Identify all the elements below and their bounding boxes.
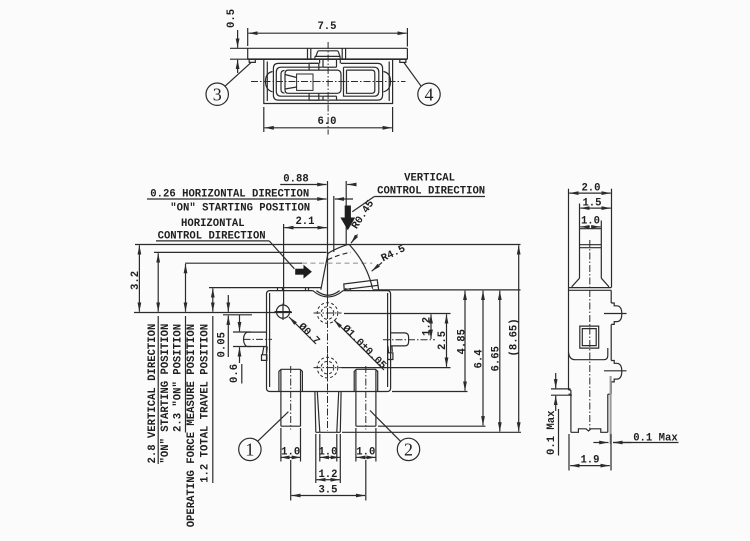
hole 0.7	[275, 304, 292, 321]
svg-text:0.05: 0.05	[217, 332, 229, 357]
svg-text:(8.65): (8.65)	[508, 318, 520, 356]
label underline lines	[158, 316, 242, 483]
top view dim 7.5	[248, 21, 408, 47]
label horizontal control direction	[156, 218, 294, 269]
label R0.45	[350, 198, 377, 243]
leader hole 0.7	[289, 317, 322, 348]
svg-text:2.1: 2.1	[295, 216, 314, 228]
top view slider	[285, 70, 341, 93]
dim line 2.3 vertical	[185, 264, 187, 312]
svg-text:"ON" STARTING POSITION: "ON" STARTING POSITION	[170, 203, 310, 215]
top view left cap	[266, 72, 273, 92]
leader hole 1.0	[334, 320, 388, 372]
extension line datum right	[344, 313, 451, 315]
label 2.3 on position	[173, 324, 185, 432]
dim 0.05	[217, 295, 253, 358]
svg-text:2.3 "ON" POSITION: 2.3 "ON" POSITION	[173, 324, 185, 432]
hole 1.0 lower	[314, 354, 342, 382]
right terminal tab	[383, 333, 435, 346]
label vertical control direction	[352, 173, 485, 212]
dim 1.0 left leg	[280, 428, 301, 462]
main dim 2.1	[284, 216, 327, 306]
side dim 0.1 max right	[593, 433, 678, 445]
balloon 1	[239, 412, 289, 461]
top view left block	[276, 67, 322, 96]
dim line operating force vertical	[212, 288, 214, 311]
side dim 0.1 max left	[546, 373, 572, 456]
svg-text:1: 1	[245, 440, 254, 460]
svg-text:3.5: 3.5	[318, 485, 337, 497]
top view horizontal centerline	[251, 81, 406, 83]
dim 2.5 right	[437, 314, 449, 367]
dim line 2.8 vertical	[157, 253, 159, 312]
svg-text:3: 3	[213, 84, 222, 104]
datum line hole center	[134, 312, 292, 314]
top view vertical centerline	[327, 42, 329, 135]
svg-text:"ON" STARTING POSITION: "ON" STARTING POSITION	[160, 324, 172, 464]
extension line lever apex vertical	[345, 181, 347, 245]
svg-text:CONTROL DIRECTION: CONTROL DIRECTION	[377, 185, 485, 197]
main body outline	[267, 291, 391, 392]
balloon 2	[370, 411, 420, 461]
center leg	[315, 392, 341, 433]
dim 8.65 right	[508, 245, 520, 431]
top view body outline	[264, 59, 393, 103]
svg-text:1.2 TOTAL TRAVEL POSITION: 1.2 TOTAL TRAVEL POSITION	[199, 324, 211, 483]
thick arrow vertical	[340, 206, 355, 231]
svg-text:0.1 Max: 0.1 Max	[633, 433, 678, 445]
dim 4.85 right	[456, 291, 468, 391]
svg-text:4.85: 4.85	[456, 329, 468, 354]
top view dim 6.0	[264, 107, 393, 132]
main centerline upper	[327, 181, 329, 296]
top view pivot bump	[315, 51, 340, 59]
svg-text:6.4: 6.4	[474, 349, 486, 369]
extension line side legs bottom	[378, 425, 486, 427]
balloon 3	[206, 63, 251, 106]
extension line body top right	[373, 289, 521, 291]
side dim 1.5	[580, 198, 611, 229]
label 2.8 vertical direction	[147, 324, 172, 464]
lever	[321, 244, 373, 289]
extension line center leg bottom	[342, 431, 521, 433]
svg-text:1.9: 1.9	[580, 455, 599, 467]
top view right block	[344, 67, 379, 96]
side bump upper	[604, 303, 627, 324]
svg-text:1.0: 1.0	[356, 447, 375, 459]
svg-text:1.2: 1.2	[422, 317, 434, 336]
label 0.26 horizontal direction	[147, 189, 353, 215]
left leg	[279, 366, 303, 430]
thick arrow horizontal	[295, 265, 312, 279]
side ledge	[569, 348, 608, 360]
label R4.5	[372, 243, 408, 271]
svg-text:2.8 VERTICAL DIRECTION: 2.8 VERTICAL DIRECTION	[147, 324, 159, 464]
dim 1.2 center	[316, 434, 341, 483]
svg-text:1.0: 1.0	[318, 447, 337, 459]
body top ticks	[278, 288, 351, 291]
side body block	[569, 288, 612, 395]
main centerline lower	[327, 296, 329, 431]
top view mounting plate	[248, 48, 408, 62]
left terminal tab	[244, 332, 273, 346]
svg-text:6.65: 6.65	[490, 346, 502, 371]
svg-text:0.88: 0.88	[283, 174, 308, 186]
top view inner frame	[273, 63, 382, 100]
lever step	[344, 280, 379, 291]
extension line operating force level	[209, 287, 322, 289]
svg-text:0.1 Max: 0.1 Max	[546, 410, 558, 455]
side centerline	[589, 240, 591, 430]
svg-text:6.0: 6.0	[317, 116, 336, 128]
side dim 2.0	[569, 183, 612, 288]
extension line lower hole right	[342, 367, 451, 369]
svg-text:1.0: 1.0	[581, 216, 600, 228]
side window	[580, 326, 599, 348]
dim 0.6	[229, 315, 251, 383]
extension line body bottom right	[392, 391, 468, 393]
side terminal sheet	[610, 376, 612, 444]
dim 6.4 right	[474, 291, 486, 426]
side dim 1.0	[580, 216, 601, 229]
svg-text:OPERATING FORCE MEASURE POSITI: OPERATING FORCE MEASURE POSITION	[186, 324, 198, 527]
side bump lower	[604, 361, 627, 382]
balloon 4	[404, 63, 440, 106]
extension line apex horizontal	[135, 244, 521, 246]
svg-text:2.5: 2.5	[437, 331, 449, 350]
svg-text:4: 4	[425, 84, 434, 104]
svg-text:0.6: 0.6	[229, 364, 241, 383]
dim 1.0 right leg	[356, 428, 376, 462]
svg-text:7.5: 7.5	[317, 21, 336, 33]
dim 1.0 center leg	[318, 434, 340, 462]
pivot arc	[313, 291, 344, 297]
label operating force measure position	[186, 324, 198, 527]
top view dim 0.5	[226, 9, 248, 73]
extension line lever 0.26	[333, 196, 335, 252]
svg-text:HORIZONTAL: HORIZONTAL	[181, 218, 245, 230]
dim 3.2	[130, 245, 142, 311]
left terminal hook	[262, 347, 268, 361]
hole 1.0 upper	[314, 299, 342, 327]
svg-text:2: 2	[404, 440, 413, 460]
dim 3.5	[291, 460, 366, 501]
label 1.2 total travel position	[199, 324, 211, 483]
main dim 0.88	[280, 174, 356, 186]
dim 6.65 right	[490, 291, 502, 432]
extension line 2.3 level	[185, 262, 372, 264]
dim 1.2 right	[422, 314, 434, 339]
side dim 1.9	[569, 434, 611, 471]
svg-text:1.0: 1.0	[281, 447, 300, 459]
svg-text:VERTICAL: VERTICAL	[404, 173, 455, 185]
side plunger	[572, 229, 609, 288]
right terminal hook	[388, 346, 393, 360]
svg-text:0.5: 0.5	[226, 9, 238, 28]
extension line 2.8 level	[154, 251, 327, 253]
top view slider top tab	[309, 63, 319, 100]
side leg outline	[569, 390, 612, 432]
top view right cap	[384, 72, 391, 92]
top view center bridge	[320, 60, 341, 101]
right leg	[354, 366, 378, 430]
